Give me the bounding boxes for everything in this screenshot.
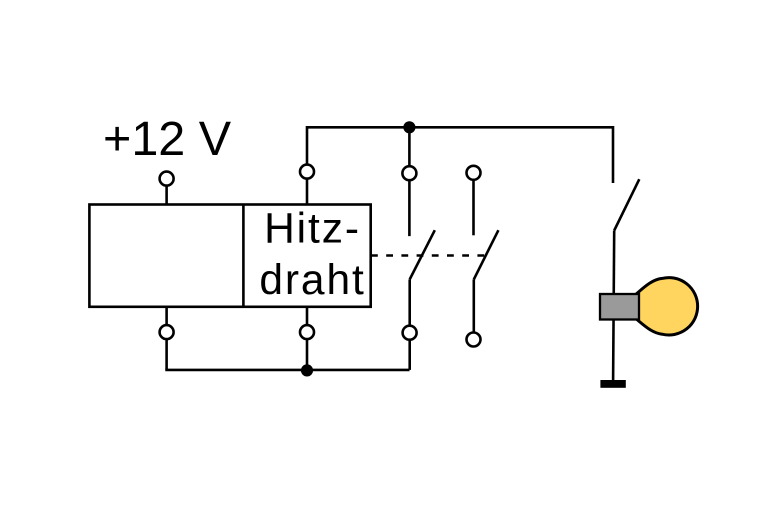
svg-text:draht: draht xyxy=(259,257,365,304)
lamp bulb glass xyxy=(636,278,697,335)
box divider xyxy=(242,205,245,307)
wire stub +12V terminal to relay box xyxy=(165,179,168,205)
junction dot bottom bus xyxy=(301,364,313,376)
wire bottom bus xyxy=(165,369,409,372)
terminal T1 (+12V) xyxy=(160,172,174,186)
wire switch S2 lower stub to open terminal xyxy=(472,279,475,339)
wire switch S2 upper stub xyxy=(472,173,475,236)
junction dot top bus xyxy=(403,121,415,133)
wire left box bottom terminal down xyxy=(165,307,168,370)
relay box outline xyxy=(89,205,370,307)
wire Hitzdraht bottom terminal down to bottom bus xyxy=(306,307,309,370)
terminal T2 (Hitzdraht top) xyxy=(300,165,314,179)
terminal T6 (S2 top) xyxy=(467,166,481,180)
wire switch S1 upper stub xyxy=(408,127,411,236)
switch S2 blade xyxy=(474,230,499,279)
ground symbol xyxy=(600,380,625,388)
switch S1 blade xyxy=(410,230,435,279)
wire vertical from top bus down to Hitzdraht top terminal xyxy=(306,126,309,205)
terminal T3 (box bottom left) xyxy=(160,325,174,339)
wire lamp branch down to ground xyxy=(613,231,614,381)
terminal T8 (S2 bottom, open) xyxy=(467,333,481,347)
switch S3 blade (lamp switch) xyxy=(614,179,639,230)
terminal T5 (S1 top) xyxy=(402,166,416,180)
svg-text:+12 V: +12 V xyxy=(103,112,232,166)
svg-text:Hitz-: Hitz- xyxy=(264,206,361,253)
wire lamp branch upper stub xyxy=(612,126,615,183)
terminal T4 (Hitzdraht bottom) xyxy=(300,325,314,339)
lamp socket xyxy=(600,294,639,320)
wire top bus from node above Hitzdraht to lamp switch xyxy=(307,126,613,129)
dashed mechanical coupling link xyxy=(371,254,486,256)
terminal T7 (S1 bottom) xyxy=(403,326,417,340)
wire switch S1 lower stub to bottom bus xyxy=(408,279,411,370)
